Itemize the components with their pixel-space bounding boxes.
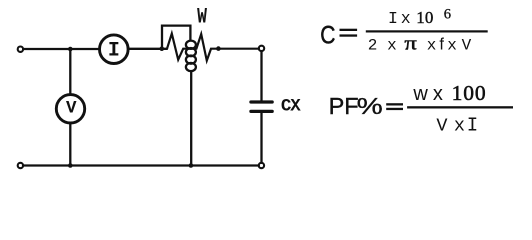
inductor coil loop 1 bbox=[186, 41, 196, 49]
svg-text:I: I bbox=[108, 40, 120, 63]
inductor coil loop 4 bbox=[186, 63, 196, 71]
terminal top-left bbox=[18, 47, 23, 52]
svg-text:x: x bbox=[454, 115, 465, 136]
svg-text:6: 6 bbox=[444, 7, 451, 23]
capacitor plate bottom bbox=[251, 110, 272, 113]
capacitor branch upper bbox=[260, 51, 262, 100]
inductor coil loop 3 bbox=[186, 56, 196, 64]
voltmeter branch lower bbox=[69, 123, 71, 166]
svg-text:I: I bbox=[388, 9, 398, 28]
junction node at voltmeter top bbox=[68, 47, 73, 52]
equals sign of PF% bbox=[386, 103, 403, 105]
svg-text:V: V bbox=[462, 36, 472, 54]
svg-text:x: x bbox=[427, 36, 437, 54]
svg-text:C: C bbox=[320, 21, 335, 49]
bottom rail bbox=[23, 164, 259, 166]
svg-text:f: f bbox=[439, 35, 444, 53]
junction node after zigzag bbox=[216, 46, 221, 51]
junction node coil bottom bbox=[189, 163, 194, 168]
svg-text:10: 10 bbox=[416, 8, 433, 27]
corner circle top-right bbox=[259, 46, 264, 51]
wire ammeter to zigzag bbox=[128, 48, 167, 50]
capacitor plate top bbox=[251, 100, 272, 103]
fraction bar 1 bbox=[366, 30, 488, 32]
terminal bottom-left bbox=[18, 163, 23, 168]
voltmeter branch upper bbox=[69, 49, 71, 95]
svg-text:I: I bbox=[467, 114, 478, 136]
wattmeter potential tap rectangle bbox=[162, 26, 190, 49]
svg-text:V: V bbox=[66, 98, 77, 118]
svg-text:100: 100 bbox=[452, 81, 487, 105]
inductor coil loop 2 bbox=[186, 48, 196, 56]
svg-text:V: V bbox=[436, 115, 447, 136]
svg-text:W: W bbox=[197, 4, 207, 29]
svg-text:x: x bbox=[387, 36, 397, 54]
corner circle bottom-right bbox=[259, 163, 264, 168]
coil lead down to rail bbox=[190, 71, 192, 165]
svg-text:x: x bbox=[401, 9, 411, 28]
voltmeter circle bbox=[56, 95, 84, 123]
svg-text:w: w bbox=[412, 83, 428, 105]
svg-text:π: π bbox=[404, 32, 416, 54]
junction node at wattmeter tap bbox=[160, 46, 165, 51]
ammeter circle bbox=[100, 35, 129, 64]
svg-text:%: % bbox=[357, 93, 383, 120]
capacitor branch lower bbox=[260, 113, 262, 163]
svg-text:x: x bbox=[433, 83, 443, 105]
equals sign of C bbox=[340, 29, 358, 31]
svg-text:x: x bbox=[447, 36, 457, 54]
svg-text:CX: CX bbox=[281, 96, 301, 116]
wire top-left to ammeter bbox=[23, 48, 99, 50]
fraction bar 2 bbox=[407, 106, 513, 108]
junction node voltmeter bottom bbox=[68, 163, 73, 168]
svg-text:2: 2 bbox=[368, 36, 378, 54]
resistor zigzag (wattmeter current coil) bbox=[167, 34, 259, 61]
svg-text:PF: PF bbox=[329, 93, 359, 119]
